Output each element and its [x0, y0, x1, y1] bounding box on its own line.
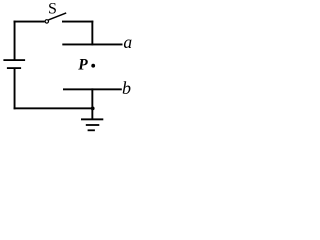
wire right-bottom vertical: [91, 88, 93, 119]
plate a horizontal line: [62, 44, 122, 46]
ground bar 3: [88, 129, 95, 131]
wire left vertical upper: [14, 21, 16, 61]
svg-text:b: b: [122, 78, 131, 98]
battery long plate: [3, 59, 25, 61]
battery short plate: [7, 67, 21, 69]
plate b horizontal line: [63, 88, 122, 90]
wire right-top vertical: [91, 21, 93, 46]
svg-text:S: S: [48, 0, 57, 17]
svg-text:P: P: [78, 56, 88, 73]
switch S blade: [48, 13, 66, 20]
wire left vertical lower: [14, 68, 16, 109]
wire top-right horizontal: [62, 21, 93, 23]
ground bar 2: [86, 124, 100, 126]
switch S pivot circle: [45, 20, 48, 23]
junction dot: [91, 107, 95, 111]
wire top-left horizontal: [14, 21, 45, 23]
ground bar 1: [81, 118, 103, 120]
wire bottom horizontal: [14, 107, 94, 109]
point P dot: [91, 64, 95, 68]
svg-text:a: a: [123, 32, 132, 52]
